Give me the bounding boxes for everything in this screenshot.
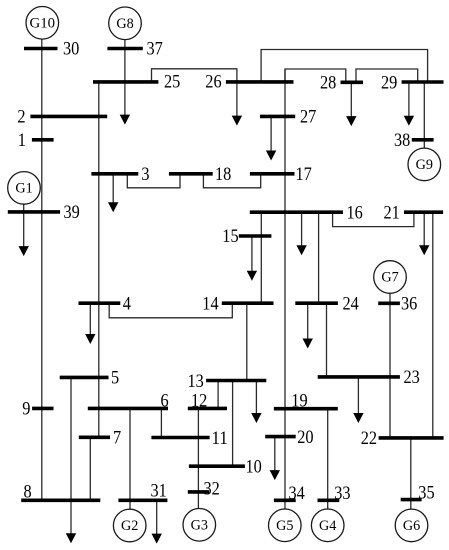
svg-text:4: 4 bbox=[123, 293, 131, 314]
bus 6 bar bbox=[88, 407, 168, 411]
svg-text:15: 15 bbox=[222, 226, 238, 247]
svg-text:21: 21 bbox=[384, 203, 400, 224]
svg-text:35: 35 bbox=[418, 482, 434, 503]
bus 13 bar bbox=[206, 379, 266, 383]
wire G7-36-23-22 vertical bbox=[389, 293, 391, 438]
svg-text:1: 1 bbox=[18, 130, 26, 151]
bus 33 bar bbox=[318, 498, 340, 502]
bus 22 bar bbox=[379, 436, 444, 440]
generator G10 bbox=[26, 7, 59, 40]
load arrow bus 3 bbox=[108, 174, 118, 212]
load arrow bus 15 bbox=[247, 236, 257, 281]
bus 19 bar bbox=[274, 407, 338, 411]
bus 28 bar bbox=[341, 81, 364, 85]
wire 29-38-G9 vertical bbox=[423, 82, 425, 149]
svg-text:20: 20 bbox=[297, 427, 313, 448]
bus 26 bar bbox=[226, 80, 294, 84]
svg-text:36: 36 bbox=[401, 294, 418, 315]
svg-text:29: 29 bbox=[381, 72, 397, 93]
bus 35 bar bbox=[401, 498, 422, 502]
wire 3-18 U-link bbox=[127, 174, 180, 188]
load arrow bus 28 bbox=[346, 82, 356, 126]
svg-text:19: 19 bbox=[291, 390, 307, 411]
bus 20 bar bbox=[265, 435, 296, 439]
wire 5-8 bbox=[70, 377, 72, 500]
wire 24-23 vertical bbox=[326, 303, 328, 377]
svg-text:34: 34 bbox=[289, 483, 306, 504]
bus 11 bar bbox=[151, 436, 209, 440]
bus 29 bar bbox=[402, 80, 444, 84]
load arrow bus 27 bbox=[266, 116, 276, 160]
wire 16-15-14 vertical bbox=[260, 212, 262, 303]
svg-text:33: 33 bbox=[334, 483, 350, 504]
svg-text:2: 2 bbox=[17, 107, 25, 128]
bus 12 bar bbox=[188, 407, 227, 411]
svg-text:8: 8 bbox=[24, 482, 32, 503]
bus 31 bar bbox=[118, 498, 167, 502]
bus 39 bar bbox=[8, 210, 60, 214]
generator G1 bbox=[8, 172, 41, 205]
wire 12-11-10-32-G3 vertical bbox=[197, 408, 199, 508]
bus 36 bar bbox=[378, 301, 400, 305]
wire 6-11 vertical bbox=[160, 408, 162, 437]
svg-text:30: 30 bbox=[63, 39, 79, 60]
bus 38 bar bbox=[412, 138, 434, 142]
bus 4 bar bbox=[79, 301, 121, 305]
svg-text:23: 23 bbox=[404, 367, 420, 388]
load arrow bus 4 bbox=[85, 303, 95, 344]
load arrow bus 29 bbox=[404, 82, 414, 126]
svg-text:12: 12 bbox=[191, 391, 207, 412]
load arrow bus 26 bbox=[232, 82, 242, 126]
bus 27 bar bbox=[260, 115, 295, 119]
svg-text:11: 11 bbox=[212, 428, 228, 449]
svg-text:32: 32 bbox=[204, 479, 220, 500]
svg-text:10: 10 bbox=[246, 457, 262, 478]
load arrow bus 23 bbox=[353, 377, 363, 423]
bus 10 bar bbox=[189, 464, 245, 468]
generator G8 bbox=[109, 7, 142, 40]
svg-text:G6: G6 bbox=[403, 518, 420, 534]
svg-text:5: 5 bbox=[111, 368, 119, 389]
load arrow bus 31 bbox=[152, 500, 162, 543]
wire 4-14 elbow bbox=[109, 303, 232, 318]
svg-text:13: 13 bbox=[188, 371, 204, 392]
bus 14 bar bbox=[222, 301, 274, 305]
load arrow bus 16 bbox=[296, 212, 306, 255]
bus 18 bar bbox=[169, 172, 213, 176]
wire 13-10 vertical bbox=[232, 381, 234, 467]
wire 18-17 U-link bbox=[203, 174, 260, 188]
svg-text:G2: G2 bbox=[121, 518, 138, 534]
wire 21-22 vertical bbox=[432, 212, 434, 438]
wire 13-12 vertical bbox=[217, 381, 219, 409]
svg-text:31: 31 bbox=[151, 481, 167, 502]
svg-text:G10: G10 bbox=[30, 16, 56, 32]
bus 17 bar bbox=[250, 172, 295, 176]
svg-text:39: 39 bbox=[64, 202, 80, 223]
wire 28-29 elbow bbox=[356, 69, 418, 82]
wire 16-21 U-link bbox=[333, 212, 414, 226]
wire 25-2-3-4-5-6-7 vertical bbox=[98, 82, 100, 437]
generator G5 bbox=[269, 509, 302, 542]
svg-text:G8: G8 bbox=[116, 16, 133, 32]
wire G1-39 stub bbox=[23, 204, 25, 212]
bus 34 bar bbox=[274, 498, 296, 502]
svg-text:G5: G5 bbox=[276, 518, 293, 534]
svg-text:24: 24 bbox=[343, 293, 360, 314]
bus 1 bar bbox=[32, 138, 54, 142]
svg-text:26: 26 bbox=[205, 72, 222, 93]
generator G7 bbox=[374, 261, 407, 294]
wire 19-33-G4 vertical bbox=[327, 409, 329, 510]
bus 30 bar bbox=[24, 47, 58, 51]
generator G4 bbox=[311, 509, 344, 542]
bus 25 bar bbox=[93, 80, 158, 84]
svg-text:G3: G3 bbox=[191, 518, 208, 534]
svg-text:27: 27 bbox=[300, 107, 317, 128]
bus 3 bar bbox=[91, 172, 138, 176]
svg-text:17: 17 bbox=[296, 164, 313, 185]
generator G3 bbox=[183, 509, 216, 542]
wire 16-24 vertical bbox=[318, 212, 320, 303]
generator G2 bbox=[113, 509, 146, 542]
svg-text:7: 7 bbox=[113, 428, 121, 449]
wire 7-8 bbox=[89, 437, 91, 500]
bus 7 bar bbox=[79, 435, 110, 439]
bus 37 bar bbox=[107, 47, 142, 51]
load arrow bus 21 bbox=[419, 212, 429, 255]
svg-text:38: 38 bbox=[394, 130, 410, 151]
svg-text:6: 6 bbox=[161, 391, 169, 412]
bus 24 bar bbox=[295, 301, 338, 305]
wire 14-13 vertical bbox=[246, 303, 248, 380]
wire G10-30-2-1-39-9-8 (left vertical) bbox=[41, 39, 43, 500]
load arrow bus 13 bbox=[251, 381, 261, 424]
bus 16 bar bbox=[250, 210, 343, 214]
svg-text:G4: G4 bbox=[319, 518, 336, 534]
wire 6-31-G2 vertical bbox=[129, 408, 131, 509]
generator G9 bbox=[408, 148, 441, 181]
bus 2 bar bbox=[30, 115, 107, 119]
wire G8-37-25 vertical bbox=[124, 39, 126, 82]
bus 5 bar bbox=[60, 376, 109, 380]
wire 25-26 elbow bbox=[152, 69, 237, 82]
svg-text:37: 37 bbox=[147, 39, 164, 60]
bus 32 bar bbox=[188, 490, 209, 494]
bus 8 bar bbox=[21, 498, 100, 502]
wire 22-35-G6 vertical bbox=[410, 438, 412, 509]
svg-text:18: 18 bbox=[215, 164, 231, 185]
bus 23 bar bbox=[318, 375, 400, 379]
svg-text:16: 16 bbox=[347, 203, 364, 224]
generator G6 bbox=[395, 509, 428, 542]
svg-text:9: 9 bbox=[22, 399, 30, 420]
bus 21 bar bbox=[404, 210, 443, 214]
bus 15 bar bbox=[239, 234, 272, 238]
svg-text:28: 28 bbox=[320, 72, 336, 93]
svg-text:G7: G7 bbox=[381, 270, 398, 286]
wire 26-29 elbow bbox=[261, 50, 428, 83]
svg-text:25: 25 bbox=[164, 72, 180, 93]
load arrow bus 24 bbox=[303, 303, 313, 348]
svg-text:G9: G9 bbox=[416, 157, 433, 173]
load arrow bus 39 bbox=[19, 212, 29, 256]
wire 26-28 elbow bbox=[285, 69, 346, 82]
wire 26-27-17-16-19-20-34-G5 vertical bbox=[284, 69, 286, 509]
svg-text:22: 22 bbox=[361, 428, 377, 449]
bus 9 bar bbox=[32, 407, 53, 411]
load arrow bus 25 bbox=[120, 82, 130, 125]
load arrow bus 20 bbox=[270, 437, 280, 481]
svg-text:3: 3 bbox=[141, 164, 149, 185]
svg-text:G1: G1 bbox=[15, 181, 32, 197]
svg-text:14: 14 bbox=[202, 293, 219, 314]
load arrow bus 8 bbox=[66, 500, 76, 543]
